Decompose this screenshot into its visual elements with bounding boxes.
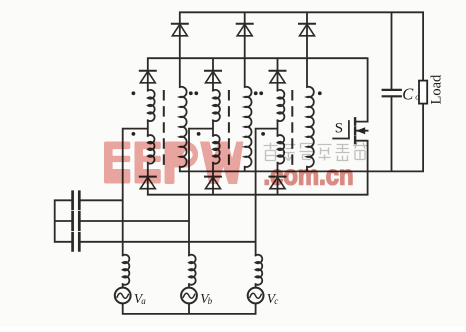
svg-text:.com.cn: .com.cn	[264, 159, 354, 190]
svg-text:c: c	[274, 296, 278, 306]
svg-text:o: o	[415, 92, 419, 102]
svg-text:S: S	[335, 121, 343, 137]
svg-text:b: b	[208, 296, 213, 306]
svg-text:Load: Load	[429, 74, 445, 105]
svg-text:a: a	[141, 296, 146, 306]
svg-text:C: C	[402, 85, 414, 104]
